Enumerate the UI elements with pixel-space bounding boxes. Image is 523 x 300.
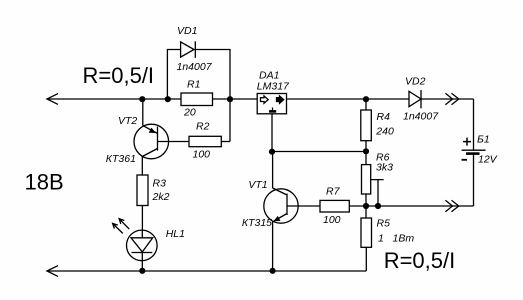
wire R2 left: [158, 141, 190, 143]
wire mid rail right: [349, 205, 473, 207]
diode VD1 branch: [167, 50, 180, 100]
svg-text:Б1: Б1: [477, 134, 490, 146]
battery plus sign: [463, 138, 471, 146]
transistor VT2 base line: [157, 127, 159, 151]
battery B1 short plate: [466, 152, 480, 155]
svg-text:R4: R4: [377, 111, 391, 123]
wire R2 right: [221, 141, 230, 143]
node R4 on top rail: [363, 96, 369, 102]
wire top rail to corner: [421, 98, 474, 100]
resistor R7: [320, 200, 349, 212]
wire right vertical bottom: [473, 155, 475, 206]
svg-text:R3: R3: [153, 178, 167, 190]
svg-text:VD1: VD1: [177, 25, 197, 37]
svg-text:VD2: VD2: [405, 76, 426, 88]
svg-text:VT1: VT1: [248, 179, 267, 191]
R6 wiper tap: [371, 180, 384, 206]
DA1 adjust symbol: [272, 108, 274, 111]
battery minus sign: [462, 159, 468, 161]
node VT1 emitter on bottom rail: [270, 268, 276, 274]
svg-text:100: 100: [193, 149, 211, 161]
wire top rail left: [47, 98, 181, 100]
svg-text:1n4007: 1n4007: [403, 111, 439, 123]
LED HL1 triangle: [131, 238, 153, 252]
resistor R5: [365, 206, 367, 218]
svg-text:R=0,5/I: R=0,5/I: [384, 248, 456, 273]
svg-text:20: 20: [183, 107, 196, 119]
transistor VT1 collector diagonal: [273, 188, 287, 195]
transistor VT2 emitter arrow: [149, 128, 156, 133]
transistor VT2 collector diagonal: [142, 149, 157, 157]
node HL1 on bottom rail: [139, 268, 145, 274]
node R6 bottom: [363, 203, 369, 209]
node R6 tap: [375, 203, 381, 209]
wire R6 bottom: [365, 194, 367, 206]
wire top rail right of DA1: [287, 98, 410, 100]
svg-text:VT2: VT2: [118, 115, 137, 127]
resistor R2: [189, 136, 221, 146]
connector chevrons top: [445, 93, 458, 104]
wire DA1 adjust pin: [271, 114, 273, 152]
svg-text:HL1: HL1: [166, 228, 185, 240]
svg-text:R7: R7: [326, 186, 341, 198]
svg-text:1n4007: 1n4007: [177, 61, 213, 73]
node VD1 left on top rail: [165, 96, 171, 102]
svg-text:КТ361: КТ361: [106, 153, 136, 165]
transistor VT1 emitter diagonal: [274, 214, 287, 222]
wire bottom rail arrow left: [47, 266, 58, 277]
svg-text:R2: R2: [196, 121, 210, 133]
resistor R4: [365, 99, 367, 110]
node DA1 adjust: [269, 149, 275, 155]
diode VD1 triangle: [181, 42, 194, 57]
wire R4 bottom: [365, 141, 367, 152]
node VD1 right on top rail: [227, 96, 233, 102]
LED HL1 cathode bar: [132, 252, 153, 254]
wire VT1 collector from node: [272, 152, 274, 189]
wire node to R6: [365, 152, 367, 165]
resistor R1: [181, 93, 213, 106]
wire top rail arrow left: [47, 94, 58, 105]
wire R3 to HL1: [141, 206, 143, 231]
svg-text:2k2: 2k2: [152, 191, 170, 203]
wire VT2 collector down: [141, 157, 143, 176]
transistor VT1 base line: [286, 194, 288, 216]
diode VD2 cathode bar: [420, 90, 422, 108]
wire HL1 to bottom rail: [141, 253, 143, 272]
svg-text:R5: R5: [377, 218, 391, 230]
transistor VT1 circle: [264, 189, 298, 223]
resistor R3: [137, 175, 148, 206]
svg-text:1: 1: [378, 233, 384, 245]
diode VD1 cathode bar: [194, 41, 196, 58]
transistor VT2 emitter wire: [142, 99, 144, 126]
transistor VT1 emitter arrow: [274, 216, 281, 221]
wire VT1 emitter down: [272, 222, 274, 272]
diode VD1 right branch: [195, 50, 230, 142]
wire top rail middle: [213, 98, 258, 100]
wire bottom rail: [47, 270, 366, 272]
svg-text:18В: 18В: [25, 170, 64, 195]
wire right vertical top: [473, 99, 475, 150]
connector chevrons bottom: [445, 200, 458, 211]
junction node dots: [139, 96, 381, 274]
transistor VT2 circle: [134, 124, 169, 159]
transistor VT2 emitter diagonal: [143, 126, 158, 134]
svg-text:240: 240: [375, 126, 394, 138]
diode VD2 triangle: [409, 91, 421, 106]
DA1 output arrow (filled): [277, 96, 284, 103]
svg-text:R=0,5/I: R=0,5/I: [83, 63, 155, 88]
svg-text:КТ315: КТ315: [242, 217, 272, 229]
LED HL1 circle: [127, 230, 158, 261]
LED HL1 emission arrow 2: [119, 219, 129, 229]
LED HL1 anode wire: [141, 230, 143, 238]
svg-text:R1: R1: [187, 79, 200, 91]
svg-text:1Вт: 1Вт: [393, 233, 415, 245]
wire VT1 base to R7: [287, 205, 320, 207]
LED HL1 emission arrow 1: [113, 223, 123, 233]
svg-text:100: 100: [323, 214, 341, 226]
svg-text:12V: 12V: [478, 154, 498, 166]
svg-text:LM317: LM317: [257, 81, 290, 93]
battery B1 long plate: [462, 149, 486, 151]
op-amp regulator DA1 box: [257, 94, 286, 114]
DA1 input arrow (hollow): [261, 96, 269, 103]
wire adjust node to R4R6 node: [272, 151, 366, 153]
wire R5 bottom to rail: [365, 247, 367, 271]
resistor R6: [362, 165, 371, 194]
node VT2 emitter on top rail: [139, 96, 145, 102]
node R4-R6: [363, 148, 369, 154]
svg-text:3k3: 3k3: [376, 162, 393, 174]
